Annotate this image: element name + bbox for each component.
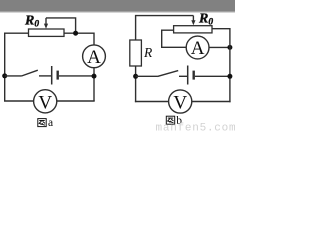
node: junction dot right-middle (circuit a) xyxy=(92,74,97,79)
ammeter A (circuit a) xyxy=(83,45,106,68)
caption 图b xyxy=(166,115,182,127)
rheostat R0 body (circuit a) xyxy=(29,29,65,36)
battery cell (circuit b) xyxy=(188,66,194,85)
svg-text:manfen5.com: manfen5.com xyxy=(156,123,236,131)
wire: battery to right wire (circuit a) xyxy=(59,75,94,77)
voltmeter V (circuit a) xyxy=(34,90,57,114)
wire: rheostat right terminal and right vertical (circuit b) xyxy=(212,29,230,103)
wire: slider link top wire (circuit b) xyxy=(136,15,194,17)
wire: middle wire to switch (circuit b) xyxy=(136,75,158,77)
rheostat R0 body (circuit b) xyxy=(174,26,212,33)
wire: right vertical upper to ammeter (circuit a) xyxy=(93,33,95,46)
switch S (circuit a) xyxy=(22,70,52,76)
wire: right vertical lower (circuit a) xyxy=(93,68,95,101)
svg-text:V: V xyxy=(38,92,52,113)
wire: top-left segment to rheostat (circuit a) xyxy=(4,32,29,34)
rheostat R0 slider arrow (circuit b) xyxy=(191,16,195,26)
svg-text:A: A xyxy=(87,47,101,68)
wire: middle wire to switch (circuit a) xyxy=(5,75,22,77)
node: junction dot left-middle (circuit a) xyxy=(2,73,7,78)
wire: bottom left segment (circuit a) xyxy=(4,100,34,102)
wire: left vertical upper to resistor (circuit b) xyxy=(135,15,137,40)
node: junction dot left-middle (circuit b) xyxy=(133,74,138,79)
top scan bar xyxy=(0,0,235,13)
wire: bottom right segment (circuit b) xyxy=(192,101,231,103)
node: slider junction dot (circuit a) xyxy=(73,31,78,36)
wire: rheostat left terminal down to ammeter (circuit b) xyxy=(162,30,187,47)
svg-text:A: A xyxy=(191,38,205,59)
wire: left vertical (circuit a) xyxy=(4,33,6,101)
svg-text:a: a xyxy=(48,117,53,129)
wire: battery to right wire (circuit b) xyxy=(195,75,230,77)
wire: bottom left segment (circuit b) xyxy=(135,101,169,103)
node: junction dot ammeter-right wire (circuit b) xyxy=(227,45,232,50)
ammeter A (circuit b) xyxy=(186,36,209,59)
caption 图a xyxy=(38,117,53,129)
svg-text:V: V xyxy=(173,93,187,114)
battery cell (circuit a) xyxy=(52,66,58,85)
resistor R body (circuit b) xyxy=(130,40,142,66)
node: junction dot right-middle (circuit b) xyxy=(227,74,232,79)
wire: left vertical lower (circuit b) xyxy=(135,66,137,102)
wire: bottom right segment (circuit a) xyxy=(57,100,95,102)
voltmeter V (circuit b) xyxy=(169,90,192,114)
switch S (circuit b) xyxy=(158,71,188,77)
wire: top segment rheostat to corner (circuit a) xyxy=(64,32,94,34)
rheostat R0 slider arrow (circuit a) xyxy=(44,18,48,29)
wire: slider link to top wire (circuit a) xyxy=(46,18,76,33)
svg-text:R: R xyxy=(143,45,153,60)
wire: ammeter right to right wire (circuit b) xyxy=(209,46,230,48)
